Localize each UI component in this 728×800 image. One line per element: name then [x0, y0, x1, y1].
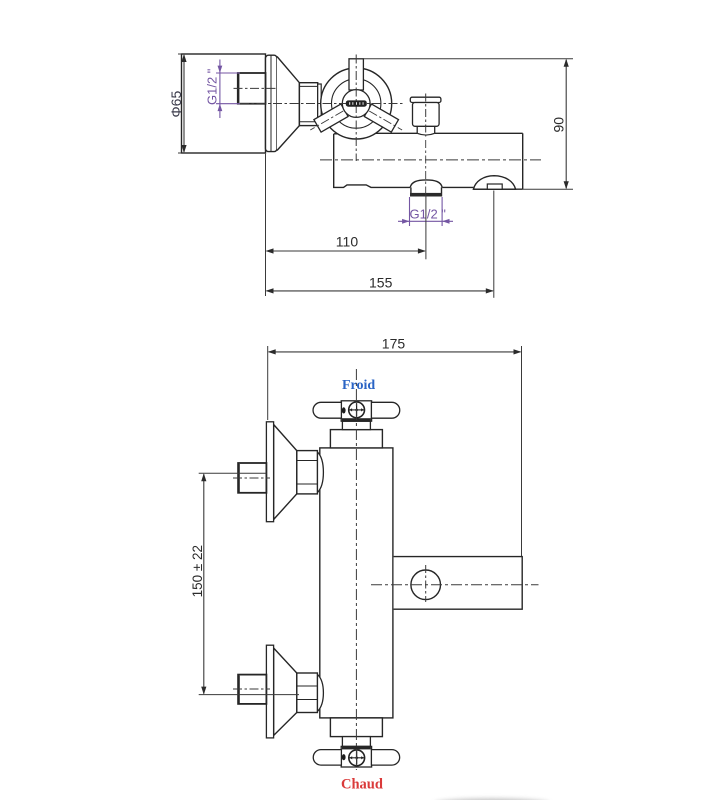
svg-text:Froid: Froid — [342, 378, 375, 393]
svg-text:Chaud: Chaud — [341, 777, 383, 793]
svg-text:150 ± 22: 150 ± 22 — [190, 545, 205, 597]
svg-text:175: 175 — [382, 335, 406, 351]
svg-text:110: 110 — [336, 234, 359, 250]
svg-text:G1/2 ": G1/2 " — [410, 206, 447, 221]
svg-text:G1/2 ": G1/2 " — [205, 68, 220, 105]
svg-text:90: 90 — [551, 117, 567, 133]
svg-text:Φ65: Φ65 — [168, 91, 184, 118]
svg-text:155: 155 — [369, 274, 393, 290]
